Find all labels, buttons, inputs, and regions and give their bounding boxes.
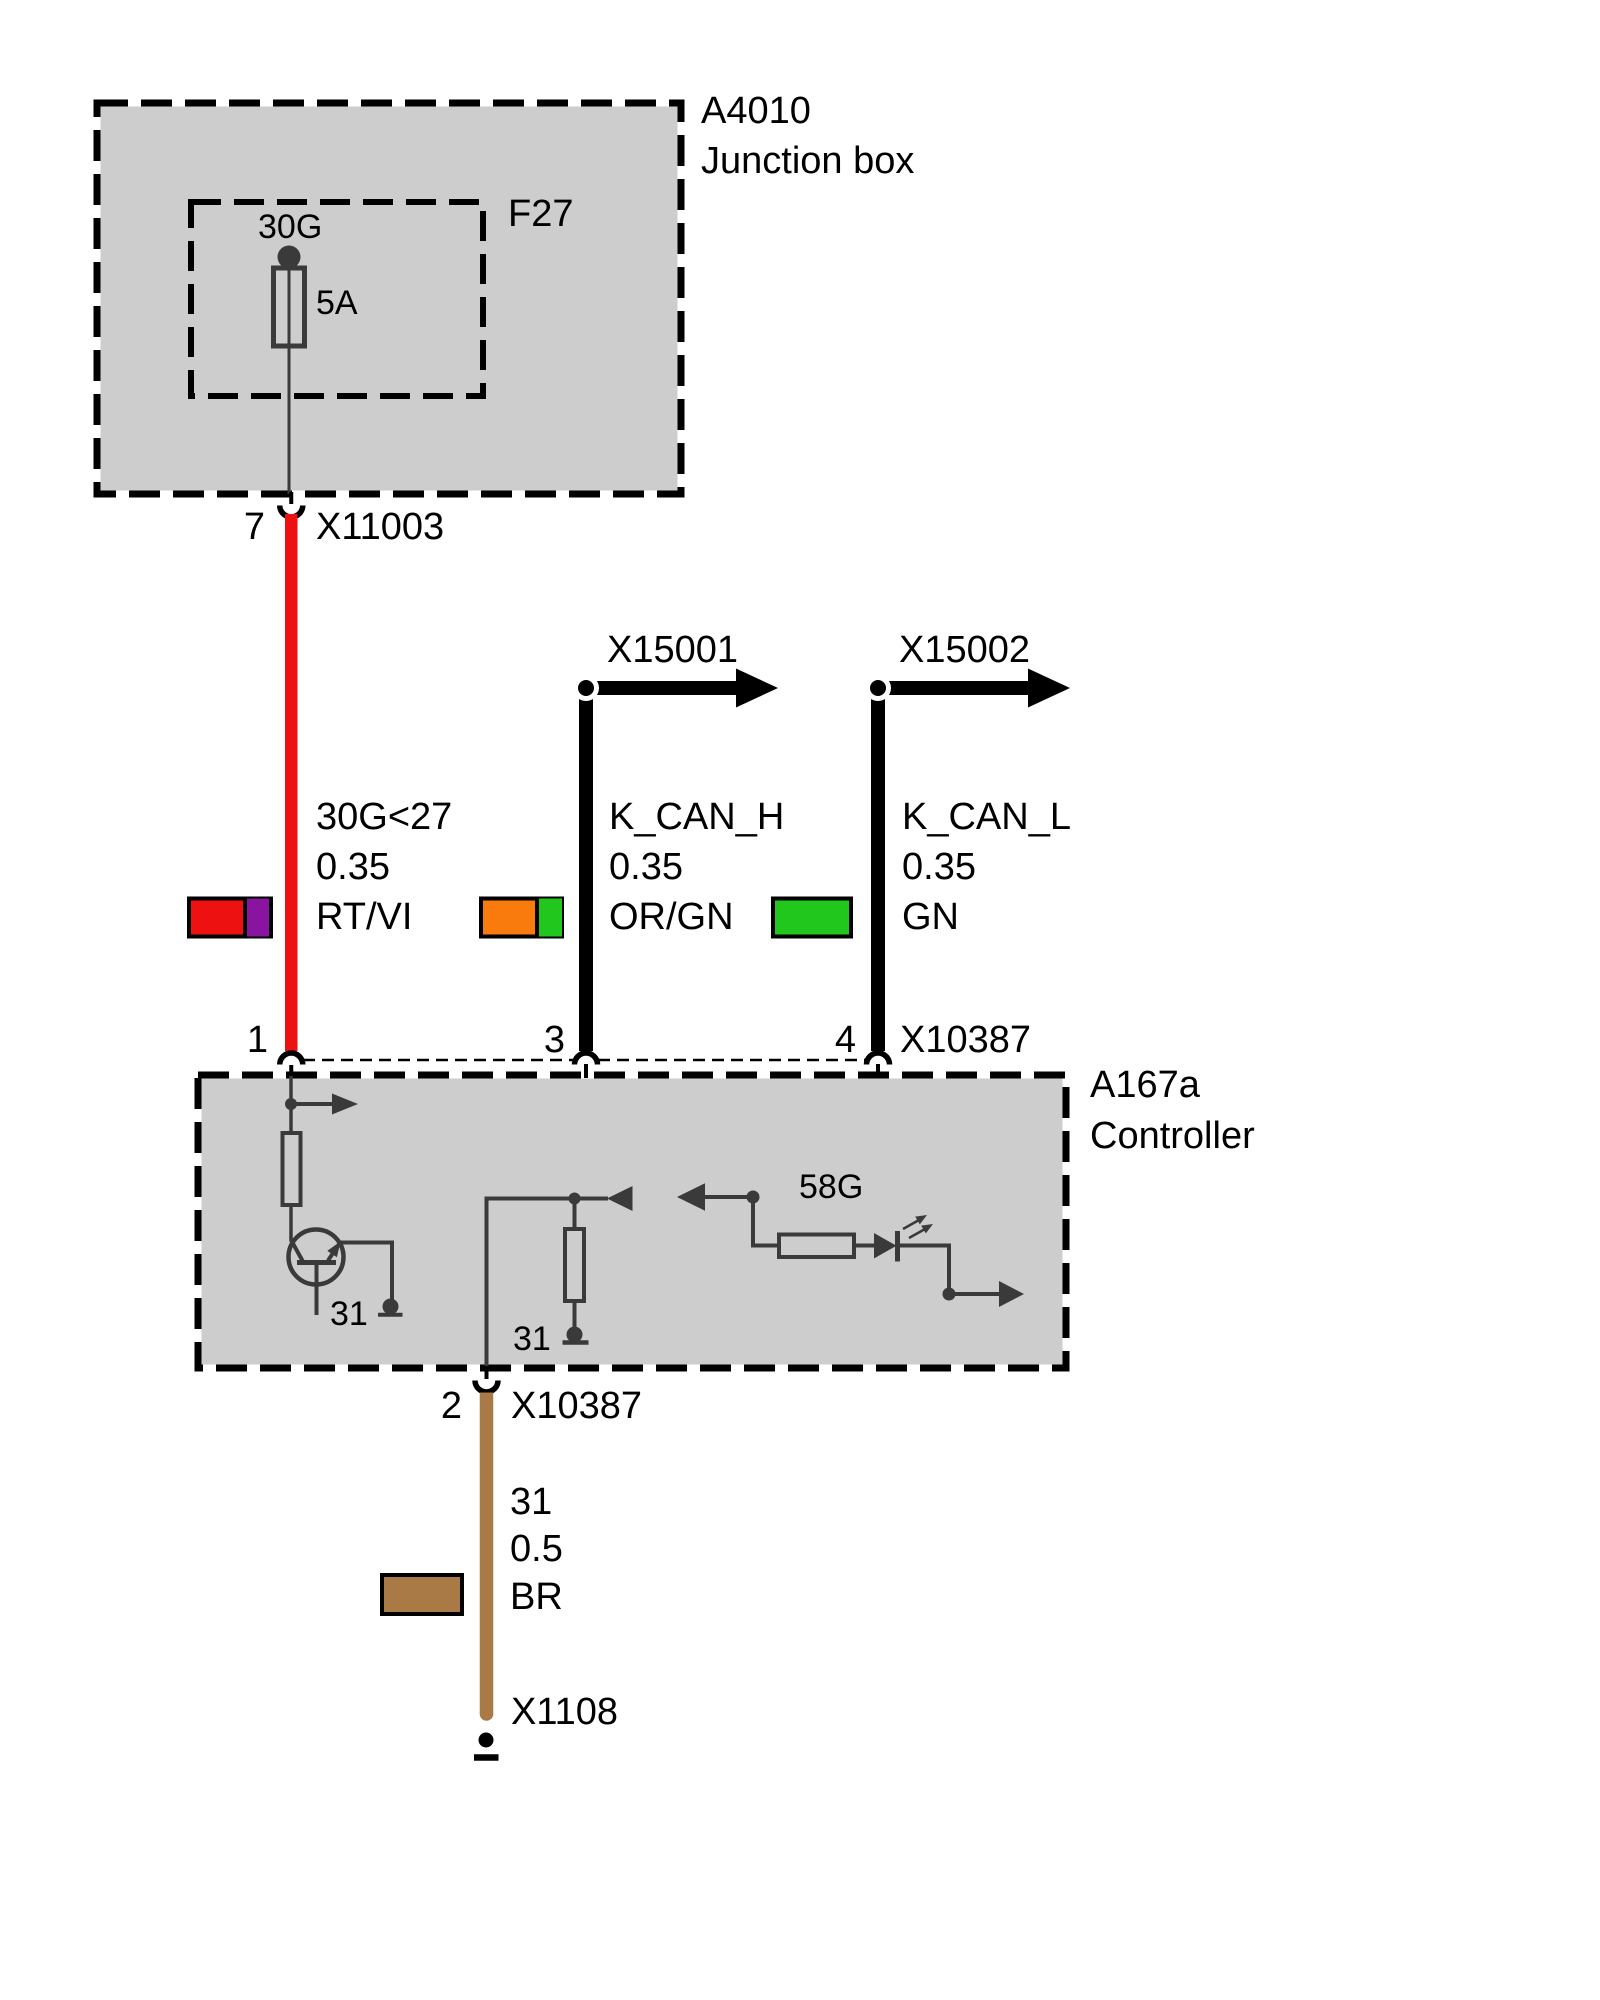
internal wire from pin 2 up and right	[487, 1199, 575, 1369]
emitter wire to ground	[341, 1243, 392, 1302]
fuse F27	[274, 268, 305, 346]
internal arrow left (58G branch)	[677, 1183, 753, 1211]
connector X10387 pin 2 stub	[485, 1366, 489, 1379]
svg-text:X1108: X1108	[511, 1691, 618, 1733]
color swatch RT/VI	[189, 897, 271, 939]
svg-text:K_CAN_H: K_CAN_H	[609, 796, 784, 838]
svg-text:OR/GN: OR/GN	[609, 896, 734, 938]
color swatch GN	[773, 899, 851, 937]
LED light arrow 2	[909, 1224, 933, 1238]
junction node pin2 branch	[569, 1193, 581, 1205]
svg-text:31: 31	[513, 1320, 551, 1358]
connector arrow X15001	[573, 669, 778, 708]
internal arrow left-pointing at node	[575, 1186, 633, 1211]
wire node to resistor R3	[753, 1197, 779, 1246]
ground X1108 node	[479, 1733, 494, 1748]
svg-text:F27: F27	[508, 193, 573, 235]
resistor R1	[283, 1133, 301, 1205]
svg-text:3: 3	[544, 1019, 565, 1061]
resistor R3	[779, 1235, 854, 1258]
svg-text:BR: BR	[510, 1576, 563, 1618]
svg-text:X15001: X15001	[607, 629, 738, 671]
wire from node 30G through fuse to box edge	[288, 257, 291, 494]
connector X10387 pin 1 stub	[289, 1065, 293, 1078]
wire label K_CAN_L 0.35 GN	[902, 796, 1071, 938]
connector X11003 pin 7 stub	[289, 492, 293, 504]
label A167a Controller	[1090, 1064, 1255, 1157]
connector X10387 pin 4 arc	[867, 1053, 890, 1065]
svg-text:A4010: A4010	[701, 90, 811, 132]
wire K_CAN_L (black)	[871, 688, 885, 1051]
svg-text:GN: GN	[902, 896, 959, 938]
svg-text:30G<27: 30G<27	[316, 796, 452, 838]
internal arrow right (58G out)	[949, 1281, 1024, 1307]
svg-text:X10387: X10387	[511, 1385, 642, 1427]
svg-text:X10387: X10387	[900, 1019, 1031, 1061]
fuse box F27	[191, 202, 483, 396]
wire 31 brown BR	[480, 1393, 494, 1715]
connector arrow X15002	[865, 669, 1070, 708]
svg-text:2: 2	[441, 1385, 462, 1427]
junction node after LED	[943, 1288, 956, 1301]
LED light arrow 1	[903, 1215, 927, 1229]
svg-text:X11003: X11003	[316, 506, 444, 548]
svg-text:K_CAN_L: K_CAN_L	[902, 796, 1071, 838]
internal arrow right from pin1 node	[291, 1094, 358, 1115]
junction node 58G	[747, 1191, 760, 1204]
connector X10387 pin 1 arc	[280, 1053, 303, 1065]
connector X10387 pin 3 stub	[584, 1064, 588, 1078]
wire label K_CAN_H 0.35 OR/GN	[609, 796, 784, 938]
resistor R2	[565, 1229, 584, 1301]
connector X11003 socket arc	[280, 506, 303, 518]
svg-text:31: 31	[510, 1481, 552, 1523]
svg-text:Junction box: Junction box	[701, 140, 914, 182]
wire resistor R2 to ground	[573, 1301, 577, 1330]
connector X10387 pin 3 arc	[575, 1053, 598, 1065]
wire label 31 0.5 BR	[510, 1481, 563, 1618]
connector X10387 pin 4 stub	[876, 1064, 880, 1078]
svg-text:X15002: X15002	[899, 629, 1030, 671]
svg-text:RT/VI: RT/VI	[316, 896, 412, 938]
svg-text:5A: 5A	[316, 284, 358, 322]
junction box A4010	[97, 103, 681, 494]
svg-text:Controller: Controller	[1090, 1115, 1255, 1157]
svg-text:A167a: A167a	[1090, 1064, 1201, 1106]
wire node to resistor R2	[573, 1199, 577, 1230]
transistor base stem	[315, 1263, 319, 1316]
color swatch BR	[382, 1575, 462, 1614]
svg-text:58G: 58G	[799, 1168, 863, 1206]
wire LED to node	[898, 1246, 950, 1295]
wire 30G<27 red RT/VI	[285, 514, 298, 1051]
transistor emitter line with arrow	[327, 1241, 340, 1260]
internal wire from pin 1	[289, 1076, 293, 1133]
junction node pin1	[285, 1098, 297, 1110]
ground node (transistor)	[383, 1299, 399, 1315]
transistor base bar	[297, 1260, 336, 1265]
svg-text:4: 4	[835, 1019, 856, 1061]
ground X1108 bar	[474, 1754, 499, 1761]
svg-text:0.35: 0.35	[902, 846, 976, 888]
ground node (R2)	[567, 1327, 583, 1343]
wire K_CAN_H (black)	[579, 688, 593, 1051]
wire label 30G<27 0.35 RT/VI	[316, 796, 452, 938]
connector X10387 pin 2 arc	[475, 1381, 498, 1393]
wire resistor to transistor	[289, 1205, 293, 1241]
LED cathode bar	[895, 1231, 900, 1262]
svg-text:0.5: 0.5	[510, 1528, 563, 1570]
controller box A167a	[198, 1075, 1066, 1368]
color swatch OR/GN	[481, 897, 562, 939]
svg-text:0.35: 0.35	[609, 846, 683, 888]
ground bar (R2)	[563, 1340, 589, 1345]
svg-text:30G: 30G	[258, 208, 322, 246]
LED D1 triangle	[874, 1233, 897, 1259]
svg-text:0.35: 0.35	[316, 846, 390, 888]
svg-text:7: 7	[244, 506, 265, 548]
wire R3 to LED	[854, 1244, 875, 1248]
svg-text:31: 31	[330, 1295, 368, 1333]
ground bar (transistor)	[378, 1313, 403, 1317]
transistor collector line	[291, 1240, 304, 1263]
connector X10387 dashed link bar	[303, 1059, 574, 1062]
svg-text:1: 1	[247, 1019, 268, 1061]
transistor Q1 circle	[289, 1230, 344, 1285]
label A4010 Junction box	[701, 90, 914, 182]
node 30G	[278, 246, 301, 269]
